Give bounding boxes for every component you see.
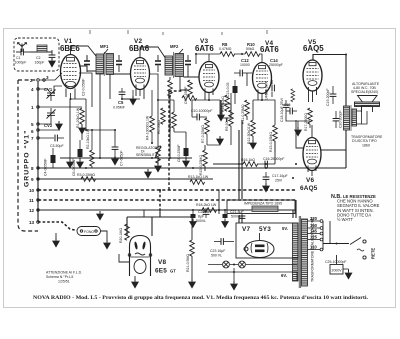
variable capacitor CV1 [47, 90, 56, 99]
svg-text:10000: 10000 [240, 63, 250, 67]
wire: bus 13 dashed to fono [38, 222, 77, 231]
svg-text:C8-0.25MF: C8-0.25MF [177, 144, 181, 162]
capacitor C17-16uF 25VL [263, 172, 270, 183]
svg-text:500 VL: 500 VL [211, 254, 222, 258]
capacitor C22 8uF 500VL [203, 208, 210, 218]
svg-text:11: 11 [29, 198, 34, 203]
ground V8 cathode [131, 279, 139, 289]
IF transformer MF1 [96, 52, 114, 76]
svg-text:C20-200pF: C20-200pF [339, 110, 343, 128]
resistor R7 vertical [205, 118, 210, 134]
registration tick marks [90, 30, 267, 35]
svg-text:C22: C22 [198, 210, 204, 214]
wire: screen bus [60, 157, 192, 159]
svg-text:C3-50pF: C3-50pF [50, 144, 64, 148]
resistor R4 vertical [150, 116, 155, 132]
wire: heater segment [122, 90, 188, 99]
wire: B+ vertical [345, 130, 347, 168]
resistor R6b [161, 108, 166, 124]
capacitor C18 [283, 100, 290, 112]
capacitor C4a block [51, 148, 56, 168]
terminal 12 [37, 209, 40, 212]
ground under C4b [76, 159, 84, 169]
svg-text:25Vl: 25Vl [275, 179, 282, 183]
wire: v8 feed [127, 210, 160, 236]
shield dashed line MF2/detector [169, 91, 183, 190]
svg-text:R16-1kΩ: R16-1kΩ [241, 158, 255, 162]
capacitor MF1 secondary [116, 55, 122, 72]
capacitor C1 [16, 49, 30, 56]
capacitor C25 10000pF 2000V [330, 255, 353, 280]
svg-text:V6: V6 [306, 177, 314, 184]
resistor R11 vertical [245, 100, 250, 116]
svg-text:MF1: MF1 [100, 44, 109, 49]
wire: V5 plate to output transformer [313, 55, 346, 109]
wire: MF2 drop right [179, 76, 181, 90]
ground mid-left [66, 159, 74, 169]
terminal 8 [37, 167, 40, 170]
svg-text:Schema N.°Pr-L5: Schema N.°Pr-L5 [46, 275, 73, 279]
wire: terminal bus vertical [37, 82, 39, 222]
tube V7 5Y3 [244, 233, 274, 258]
wire: osc section [38, 73, 80, 138]
capacitor C15 [286, 108, 297, 115]
mains switch [323, 238, 367, 260]
resistor R17 vertical [308, 108, 313, 124]
svg-text:25000pF: 25000pF [269, 63, 283, 67]
svg-text:9: 9 [31, 177, 34, 182]
potentiometer REGOLATORE DI SENSIBILITA [155, 143, 161, 163]
resistor R3-0.25MA [81, 177, 96, 182]
svg-text:R4-10000Ω.1W: R4-10000Ω.1W [146, 115, 150, 140]
capacitor C9 below MF2 [188, 80, 193, 96]
capacitor to ground in antenna box [48, 50, 56, 68]
svg-text:C4-0.05MF: C4-0.05MF [44, 158, 48, 176]
terminal 1 [37, 106, 40, 109]
svg-text:R6-50kΩ: R6-50kΩ [157, 120, 161, 134]
ground under CV2 [55, 121, 63, 131]
transformer tap 130 [308, 239, 321, 241]
wire: MF1 secondary to V2 grid [114, 73, 132, 75]
N.B. note [331, 194, 380, 222]
capacitor C3-50pF [55, 135, 64, 142]
wire: shielded drop to V8 [159, 190, 161, 210]
terminal 6 [37, 129, 40, 132]
capacitor C10-10000pF [192, 114, 204, 121]
svg-text:2000V: 2000V [332, 269, 343, 273]
terminal 3 [43, 79, 46, 82]
filter choke IMPEDENZA TIPO 1695 [227, 200, 295, 214]
svg-text:8μF: 8μF [198, 215, 204, 219]
capacitor C23 16uF 500VL [214, 238, 234, 245]
wire v1 cathode details [54, 73, 92, 140]
wire: fono to ground [56, 231, 107, 240]
svg-text:FONO: FONO [84, 230, 94, 234]
svg-text:4: 4 [31, 87, 34, 92]
svg-text:SPECIALE(5240): SPECIALE(5240) [351, 90, 378, 94]
eye shadow marks [134, 241, 138, 249]
svg-text:R18-2kΩ 1W: R18-2kΩ 1W [196, 203, 217, 207]
svg-text:REGOLATORE: REGOLATORE [136, 146, 161, 150]
svg-text:NOVA RADIO - Mod. L5 - Provvis: NOVA RADIO - Mod. L5 - Provvisto di grup… [33, 295, 369, 301]
svg-text:C16-25000pF: C16-25000pF [263, 157, 284, 161]
tube V8 6E5GT magic eye [128, 236, 152, 277]
ground R7 [216, 136, 224, 146]
terminal 4 [37, 88, 40, 91]
pilot lamps [223, 261, 230, 268]
transformer tap 160 [308, 227, 321, 229]
tube V2 6BA6 [131, 58, 150, 100]
resistor R8 top [220, 52, 235, 57]
svg-text:D’USCITA TIPO: D’USCITA TIPO [352, 139, 377, 143]
ground below R12 [249, 140, 257, 150]
capacitor C13 [233, 80, 238, 93]
svg-text:C2: C2 [36, 56, 41, 60]
svg-text:6AT6: 6AT6 [260, 45, 279, 54]
transformer tap 220 [308, 220, 321, 222]
ground on bus 8 [144, 169, 152, 179]
AVC arrow below R1 [78, 125, 86, 135]
svg-text:C2-0.05MF: C2-0.05MF [82, 78, 86, 96]
svg-text:V7: V7 [242, 226, 250, 233]
variable capacitor CV2 [47, 110, 56, 119]
resistor R20-1MA vertical [125, 224, 130, 240]
svg-text:V8: V8 [158, 259, 166, 266]
wire top coupling [196, 54, 262, 64]
resistor R15b vertical [203, 150, 208, 166]
svg-text:12/5/51: 12/5/51 [58, 280, 70, 284]
speaker ALTOPARLANTE [355, 96, 380, 113]
wire: MF2 secondary to V3 grid [184, 71, 200, 77]
wire: V1 plate to MF1 [79, 56, 96, 71]
output transformer [344, 105, 372, 131]
svg-text:6BA6: 6BA6 [129, 44, 150, 53]
svg-text:5: 5 [31, 122, 34, 127]
power transformer windings [293, 216, 308, 288]
resistor R2-10k vertical [90, 150, 95, 166]
svg-text:5Y3: 5Y3 [259, 226, 271, 233]
svg-text:C18-10μF 25Vl: C18-10μF 25Vl [280, 98, 284, 122]
resistor R5-1kA vertical [172, 112, 177, 128]
svg-text:C21-8μF: C21-8μF [230, 210, 244, 214]
svg-text:R11-0.25MΩ: R11-0.25MΩ [241, 104, 245, 124]
svg-text:10: 10 [29, 188, 35, 193]
svg-text:6AT6: 6AT6 [195, 44, 214, 53]
terminal 7 [37, 137, 40, 140]
svg-text:R3-0.25MΩ: R3-0.25MΩ [77, 173, 95, 177]
tube V4 6AT6 [253, 63, 272, 101]
svg-text:C23 16μF: C23 16μF [210, 249, 225, 253]
svg-text:2: 2 [30, 78, 33, 83]
svg-text:160pF: 160pF [35, 61, 45, 65]
antenna symbol [17, 43, 27, 53]
diagonal grid-cap wires [71, 46, 184, 58]
capacitor MF2 secondary [185, 55, 191, 72]
resistor R15 vertical [273, 125, 278, 141]
svg-text:R15-0.25MΩ: R15-0.25MΩ [199, 155, 203, 175]
svg-text:R12-50kΩ1W: R12-50kΩ1W [247, 122, 251, 144]
ground fono [52, 238, 60, 248]
voltage selector bars [322, 221, 324, 250]
wire: bus 10 (shield dashed) [38, 189, 296, 191]
svg-text:R7-0.25MΩ: R7-0.25MΩ [201, 125, 205, 143]
terminal 13 [37, 221, 40, 224]
terminal 2 [37, 79, 40, 82]
svg-text:6V.: 6V. [281, 273, 287, 278]
transformer tap 110 [308, 249, 321, 251]
capacitor C4b block [78, 140, 83, 159]
svg-text:50kΩ: 50kΩ [246, 47, 255, 51]
resistor R16-1kA [243, 162, 258, 167]
ground R21 [188, 279, 196, 289]
wires center section [192, 73, 298, 145]
wire: MF2 primary drop [169, 77, 171, 80]
wire: MF1 primary drop [99, 74, 101, 158]
capacitor block + ground left of C22 [191, 214, 196, 218]
svg-text:R17-2500Ω: R17-2500Ω [304, 113, 308, 131]
svg-text:C19-200pF: C19-200pF [326, 88, 330, 106]
ground on bus 12 [96, 211, 104, 221]
capacitor C21-8uF [239, 213, 246, 218]
wire: v8 drops [119, 217, 192, 279]
svg-text:GRUPPO “V1”: GRUPPO “V1” [24, 130, 31, 187]
svg-text:1000pF: 1000pF [15, 61, 27, 65]
arrow detector [217, 112, 225, 122]
IF transformer MF2 [165, 52, 184, 78]
svg-text:CV1: CV1 [44, 87, 53, 92]
resistor R5b below MF2 [168, 80, 173, 96]
transformer tap 145 [308, 233, 321, 235]
svg-text:½ WATT: ½ WATT [337, 217, 353, 222]
capacitor C20-200pF [333, 111, 340, 128]
terminal 5 [37, 123, 40, 126]
svg-text:6E5: 6E5 [155, 268, 167, 275]
svg-text:R15-0.25MΩ: R15-0.25MΩ [269, 132, 273, 152]
svg-text:0.05MF: 0.05MF [113, 106, 125, 110]
svg-text:R20-1MΩ: R20-1MΩ [119, 228, 123, 243]
wire antenna box [30, 51, 52, 53]
svg-text:3: 3 [46, 75, 49, 80]
svg-text:R21-0.5MΩ: R21-0.5MΩ [186, 254, 190, 272]
wire: bus 9 [38, 178, 213, 180]
wire: push-pull plates [296, 91, 346, 176]
capacitor C5 [119, 88, 126, 99]
svg-text:MF2: MF2 [170, 44, 179, 49]
capacitor C12 10000 [234, 70, 252, 77]
svg-text:C13-0.05: C13-0.05 [226, 83, 230, 97]
svg-text:GT: GT [170, 269, 176, 274]
svg-text:8: 8 [31, 166, 34, 171]
wire: center verticals to rectifier [238, 130, 240, 199]
svg-text:R2-10kΩ.1W: R2-10kΩ.1W [86, 128, 90, 149]
wire: bus 8 [38, 167, 346, 169]
capacitor MF2 primary [155, 55, 161, 72]
svg-text:RETE: RETE [371, 248, 376, 259]
tube V1 6BE6 [61, 55, 81, 100]
capacitor MF1 primary [84, 55, 90, 72]
svg-text:C9-0.25MF: C9-0.25MF [184, 86, 188, 104]
svg-text:TRASFORMATORE DI ALIMENTAZIONE: TRASFORMATORE DI ALIMENTAZIONE [311, 217, 315, 282]
capacitor C19-200pF [330, 86, 337, 104]
svg-text:6AQ5: 6AQ5 [300, 185, 318, 192]
tube V6 6AQ5 [303, 138, 321, 173]
tube V3 6AT6 [199, 62, 219, 101]
svg-text:500VL: 500VL [196, 219, 206, 223]
svg-text:R9-50kΩ: R9-50kΩ [225, 117, 229, 131]
resistor R18-2kA 1W [202, 208, 217, 213]
svg-text:13: 13 [29, 220, 35, 225]
svg-text:6: 6 [31, 129, 34, 134]
svg-text:R1-20kΩ.1W: R1-20kΩ.1W [76, 107, 80, 128]
svg-text:C7-625pF: C7-625pF [120, 150, 124, 166]
svg-text:7: 7 [31, 136, 34, 141]
terminal 9 [37, 178, 40, 181]
svg-text:R13-1kΩ.1W: R13-1kΩ.1W [188, 175, 209, 179]
svg-text:ATTENZIONE AI F.L.D.: ATTENZIONE AI F.L.D. [46, 271, 82, 275]
svg-text:0.47MΩ: 0.47MΩ [219, 47, 232, 51]
wire: bus 12 [38, 209, 296, 211]
volume control box [222, 104, 231, 118]
svg-text:C15: C15 [284, 103, 290, 107]
capacitor C8-0.25MF [184, 140, 189, 158]
svg-text:C25-10000pF: C25-10000pF [325, 260, 346, 264]
wire: heater 6V [208, 265, 297, 282]
svg-text:C10-10000pF: C10-10000pF [191, 109, 212, 113]
svg-text:12: 12 [29, 208, 35, 213]
wire: bus 11 (shield dashed) [38, 199, 296, 201]
wire: MF1 secondary bottom drop [109, 74, 111, 99]
resistor R7b horizontal [182, 96, 197, 101]
svg-text:6AQ5: 6AQ5 [303, 44, 324, 53]
wire: feed to R18 [218, 190, 220, 214]
svg-text:U4620-19.A: U4620-19.A [265, 81, 269, 100]
svg-text:C6-0.05MF: C6-0.05MF [72, 158, 76, 176]
terminal 10 [37, 189, 40, 192]
svg-text:1869: 1869 [362, 144, 370, 148]
coil C2 trimmer [37, 45, 47, 52]
resistor R9 vertical [229, 110, 234, 126]
svg-text:IMPEDENZA TIPO 1695: IMPEDENZA TIPO 1695 [244, 202, 282, 206]
svg-text:C1: C1 [16, 56, 21, 60]
wire v8 top feed [143, 210, 145, 217]
terminal 11 [37, 199, 40, 202]
antenna input dashed box [14, 38, 59, 71]
GRUPPO dashed box [18, 80, 38, 231]
ground under V2 [129, 96, 137, 106]
ground v8 left [103, 240, 111, 250]
svg-text:C17-16μF: C17-16μF [272, 174, 288, 178]
resistor R21 vertical [190, 240, 195, 256]
svg-text:C5: C5 [118, 100, 124, 105]
rectifier box V7 [236, 223, 298, 258]
resistor R12 vertical [251, 120, 256, 136]
capacitor block + ground near C22 [223, 214, 228, 218]
ground R17 [294, 127, 302, 137]
ground below lamps [230, 281, 238, 291]
resistor R10 top [245, 52, 260, 57]
tube V5 6AQ5 [303, 60, 322, 102]
phono jack FONO [77, 227, 101, 236]
resistor across output [291, 89, 295, 102]
svg-text:1: 1 [31, 105, 34, 110]
svg-text:SENSIBILITÀ: SENSIBILITÀ [136, 153, 158, 157]
svg-text:5V.: 5V. [282, 226, 288, 231]
capacitor C7-625pF [112, 140, 119, 156]
wires V2 region [86, 74, 186, 143]
svg-text:500VL: 500VL [231, 215, 241, 219]
resistor R1 vertical [80, 108, 85, 124]
resistor R14 vertical [225, 95, 230, 111]
